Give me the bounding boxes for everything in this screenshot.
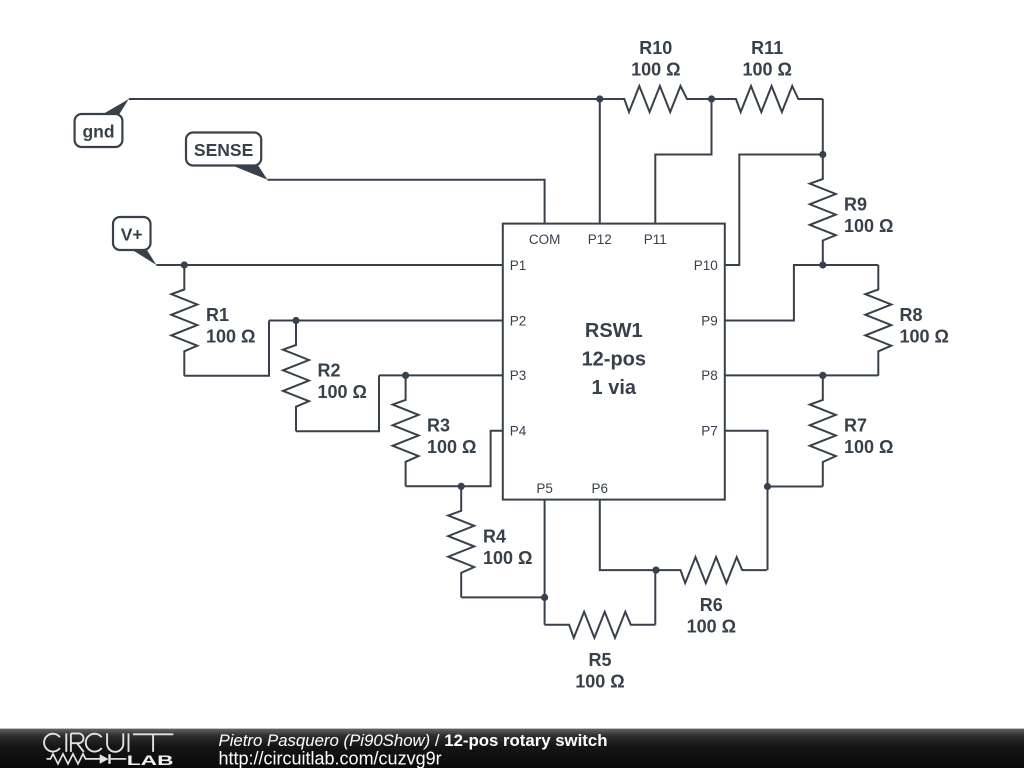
wire P7 jog down to R7 bottom node [725, 431, 768, 487]
svg-text:P12: P12 [588, 232, 612, 247]
wire P8 to R8 bottom / R7 top [725, 374, 879, 376]
resistor R8 [865, 265, 891, 376]
svg-text:100 Ω: 100 Ω [206, 326, 255, 346]
svg-text:R9: R9 [844, 195, 867, 215]
svg-text:100 Ω: 100 Ω [483, 548, 532, 568]
wire V+ net to P1 [156, 264, 502, 266]
node R10/R11/P11 junction [708, 95, 715, 102]
node P12/R10 junction [596, 95, 603, 102]
svg-text:100 Ω: 100 Ω [844, 437, 893, 457]
resistor R9 [810, 155, 836, 266]
svg-text:V+: V+ [121, 225, 143, 245]
wire R4 bottom link to P5 line [461, 596, 544, 598]
node R3 top junction [402, 372, 409, 379]
svg-text:100 Ω: 100 Ω [687, 617, 736, 637]
resistor R2 [283, 321, 309, 432]
svg-text:R6: R6 [700, 595, 723, 615]
wire P6 jog to R5/R6 node [600, 500, 656, 570]
svg-text:P2: P2 [510, 313, 527, 328]
node P6/R5/R6 junction [652, 567, 659, 574]
wire P9 jog to R9 bottom node [725, 265, 823, 321]
svg-text:COM: COM [529, 232, 561, 247]
svg-text:P8: P8 [701, 368, 718, 383]
wire SENSE net to COM [268, 180, 545, 224]
svg-text:R4: R4 [483, 527, 506, 547]
wire R1 bottom jog to P2 net [184, 321, 269, 376]
svg-text:RSW1: RSW1 [585, 320, 643, 342]
svg-text:gnd: gnd [82, 122, 114, 142]
svg-text:100 Ω: 100 Ω [844, 216, 893, 236]
wire gnd net: flag to R10 left lead [129, 98, 625, 100]
svg-text:R5: R5 [588, 650, 611, 670]
svg-text:P7: P7 [701, 424, 718, 439]
resistor R1 [171, 265, 197, 376]
svg-text:P11: P11 [644, 232, 667, 247]
svg-text:SENSE: SENSE [194, 140, 253, 160]
node P7/R6/R7 junction [764, 483, 771, 490]
svg-text:100 Ω: 100 Ω [900, 327, 949, 347]
wire P10 jog to R9 top node [725, 155, 823, 266]
resistor R5 [545, 612, 656, 638]
svg-text:P1: P1 [510, 258, 527, 273]
wire P5 drop to R5 left [544, 500, 546, 625]
wire R11 right drop to R9 top node [822, 99, 824, 155]
resistor R3 [393, 375, 419, 486]
svg-text:100 Ω: 100 Ω [427, 437, 476, 457]
wire R6 right riser [767, 487, 769, 571]
svg-text:R3: R3 [427, 415, 450, 435]
svg-text:R7: R7 [844, 416, 867, 436]
svg-text:P6: P6 [592, 481, 609, 496]
svg-text:100 Ω: 100 Ω [318, 382, 367, 402]
resistor R11 [712, 86, 823, 112]
resistor R10 [600, 86, 712, 112]
resistor R4 [448, 486, 474, 597]
node R4 bottom / P5 junction [541, 594, 548, 601]
svg-text:http://circuitlab.com/cuzvg9r: http://circuitlab.com/cuzvg9r [219, 748, 442, 768]
wire R9 bottom node to R8 top [823, 264, 879, 266]
wire P2 net [269, 320, 503, 322]
svg-text:LAB: LAB [127, 752, 174, 768]
wire P12 to gnd net [599, 99, 601, 224]
rotary switch RSW1 body [503, 224, 725, 500]
svg-text:R11: R11 [751, 38, 783, 58]
svg-text:P4: P4 [510, 424, 527, 439]
node R2 top junction [292, 317, 299, 324]
net flag gnd [101, 99, 129, 116]
svg-text:100 Ω: 100 Ω [742, 60, 791, 80]
svg-text:Pietro Pasquero (Pi90Show) / 1: Pietro Pasquero (Pi90Show) / 12-pos rota… [219, 731, 608, 750]
node R9 bottom junction [819, 261, 826, 268]
wire R2 bottom jog to P3 net [296, 375, 379, 431]
CircuitLab logo word CIRCUIT [44, 734, 60, 752]
svg-text:P5: P5 [536, 481, 553, 496]
svg-text:R8: R8 [900, 305, 923, 325]
svg-text:12-pos: 12-pos [582, 349, 646, 371]
wire P4 jog to R3 bottom [406, 431, 503, 487]
logo resistor-diode glyph [47, 754, 101, 764]
svg-text:P3: P3 [510, 368, 527, 383]
node R7 top / P8 junction [819, 372, 826, 379]
node V+/R1/P1 junction [181, 261, 188, 268]
svg-text:100 Ω: 100 Ω [575, 671, 624, 691]
node R4 top junction [458, 483, 465, 490]
svg-text:100 Ω: 100 Ω [631, 60, 680, 80]
svg-text:1 via: 1 via [592, 377, 637, 399]
resistor R6 [656, 557, 767, 583]
svg-text:P9: P9 [701, 313, 718, 328]
wire R5 right riser to node [654, 570, 656, 625]
svg-text:P10: P10 [694, 258, 718, 273]
wire P3 net [379, 374, 503, 376]
svg-text:R10: R10 [639, 38, 672, 58]
wire R7 bottom link [768, 486, 823, 488]
net flag V+ [130, 249, 156, 266]
svg-text:R2: R2 [318, 360, 341, 380]
node R9 top junction [819, 151, 826, 158]
resistor R7 [810, 375, 836, 486]
net flag SENSE [230, 165, 268, 180]
svg-text:R1: R1 [206, 305, 229, 325]
wire P11 jog up to R10/R11 node [655, 99, 711, 224]
